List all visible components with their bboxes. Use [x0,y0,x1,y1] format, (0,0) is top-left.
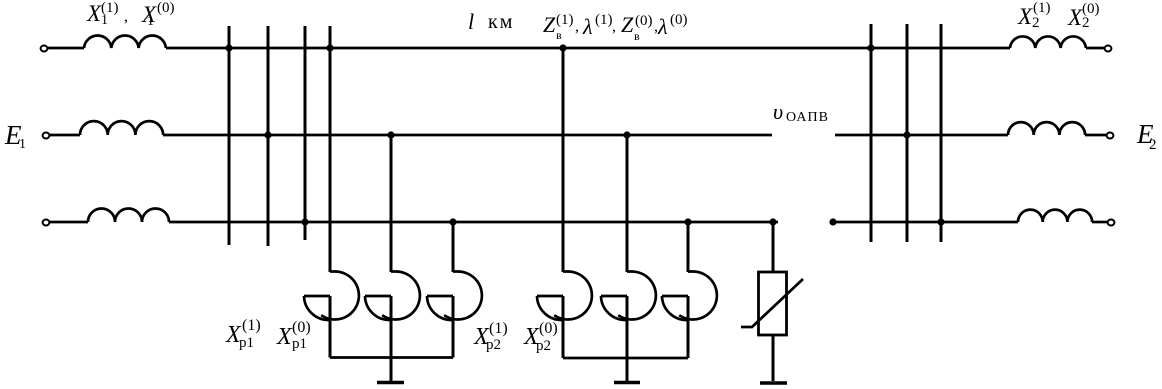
node phase A bus1 [225,44,232,51]
Xp2 reactor phase B core chord [601,295,627,298]
wire phase B to second reactor tap [391,134,627,137]
Xp2 reactor phase C core chord [662,295,688,298]
varistor body rectangle [759,272,787,335]
wire phase B X2 to E2 terminal [1085,134,1107,137]
inductor X1 phase C [88,209,169,223]
terminal circle E2 phase A [1105,46,1112,52]
wire phase C X2 to E2 terminal [1092,221,1108,224]
terminal circle E1 phase C [43,220,50,226]
wire phase A X1 to bus1 [166,47,229,50]
node phase C Xp1 tap [449,218,456,225]
wire phase C bus2 to X2 [941,221,1018,224]
Xp1 reactor phase B winding arc [382,272,420,320]
label X2(1) X2(0) [0,0,1162,1]
node phase A Xp2 tap [559,44,566,51]
terminal circle E1 phase A [41,46,48,52]
label v OAPV [0,0,1162,1]
wire lead down to Xp2 reactor phase C [687,220,690,272]
Xp1 reactor phase C lower cup arc [427,296,452,320]
wire lead down to Xp1 reactor phase A [329,26,332,272]
ground of varistor [760,381,787,384]
node phase B Xp1 tap [387,131,394,138]
Xp2 reactor phase A core chord [537,295,563,298]
Xp1 reactor phase A winding arc [321,272,359,320]
terminal circle E1 phase B [43,133,50,139]
wire phase A line section [563,47,871,50]
wire Xp1 reactor phase B bottom lead [390,296,393,381]
wire lead down to Xp2 reactor phase A [562,46,565,272]
wire phase C to second reactor tap [453,221,688,224]
left bus vertical line 2 [267,26,270,246]
inductor X2 phase C [1018,210,1092,222]
ground of Xp1 group [377,381,404,384]
wire varistor bottom lead [772,335,775,381]
inductor X2 phase B [1008,122,1085,135]
wire phase A bus2 to X2 [871,47,1010,50]
label X1(1), X1(0) [0,0,1162,1]
node phase C bus1 [301,218,308,225]
inductor X1 phase A [84,35,166,48]
wire phase B bus2 to X2 [907,134,1008,137]
varistor diagonal stroke [741,279,803,327]
Xp2 reactor phase A winding arc [554,272,592,320]
wire Xp1 reactor phase C bottom lead [452,296,455,358]
label Xp1(1) [0,0,1162,1]
label E1 [0,0,1162,1]
wire lead down to Xp1 reactor phase C [452,222,455,272]
wire neutral connector of Xp2 group [563,357,688,360]
Xp1 reactor phase B lower cup arc [365,296,390,320]
label Zv(1), lambda(1), Zv(0), lambda(0) [0,0,1162,1]
wire phase A bus1 to node Xp1 tap [229,47,330,50]
right bus vertical line 3 [940,24,943,242]
wire phase C stub at break [773,221,778,224]
label Xp2(1) [0,0,1162,1]
wire phase B after OAPV break [835,134,907,137]
wire Xp2 reactor phase C bottom lead [687,296,690,358]
wire phase B bus1 to reactor tap [268,134,391,137]
wire Xp2 reactor phase B bottom lead [626,296,629,381]
Xp1 reactor phase C core chord [427,295,453,298]
wire phase B to OAPV break [627,134,772,137]
node phase A bus2 [867,44,874,51]
node phase C Xp2 tap [684,218,691,225]
wire phase A from E1 terminal to X1 [48,47,85,50]
node phase C varistor tap [769,218,776,225]
wire phase C from E1 terminal [50,221,89,224]
wire phase B from E1 terminal [50,134,81,137]
wire lead down to Xp2 reactor phase B [626,133,629,272]
Xp2 reactor phase C lower cup arc [662,296,687,320]
Xp1 reactor phase C winding arc [444,272,482,320]
node phase B Xp2 tap [623,131,630,138]
wire lead down to Xp1 reactor phase B [390,135,393,272]
Xp1 reactor phase A core chord [304,295,330,298]
wire phase C X1 to bus1 [169,221,305,224]
node phase C break end [829,218,836,225]
wire lead down to varistor [772,222,775,272]
left bus vertical line 1 [228,26,231,245]
label Xp1(0) [0,0,1162,1]
wire Xp2 reactor phase A bottom lead [562,296,565,358]
Xp2 reactor phase C winding arc [679,272,717,320]
wire phase C to varistor tap [688,221,773,224]
node phase A Xp1 tap [326,44,333,51]
wire neutral connector of Xp1 group [330,356,453,359]
wire phase B X1 to bus1 [163,134,268,137]
label l km [0,0,1162,1]
wire phase A to node Xp2 tap [330,47,563,50]
terminal circle E2 phase B [1107,133,1114,139]
node phase B bus2 [903,131,910,138]
inductor X2 phase A [1010,36,1086,48]
node phase C bus2 [937,218,944,225]
Xp1 reactor phase A lower cup arc [304,296,329,320]
label Xp2(0) [0,0,1162,1]
wire phase C bus1 to reactor tap [305,221,453,224]
inductor X1 phase B [80,121,163,135]
wire phase C after break [833,221,941,224]
label E2 [0,0,1162,1]
wire Xp1 reactor phase A bottom lead [329,296,332,358]
right bus vertical line 2 [906,24,909,242]
ground of Xp2 group [614,381,640,384]
Xp2 reactor phase A lower cup arc [537,296,562,320]
terminal circle E2 phase C [1108,220,1115,226]
Xp2 reactor phase B winding arc [618,272,656,320]
wire phase A X2 to E2 terminal [1086,47,1105,50]
right bus vertical line 1 [870,24,873,242]
Xp1 reactor phase B core chord [365,295,391,298]
node phase B bus1 [264,131,271,138]
Xp2 reactor phase B lower cup arc [601,296,626,320]
left bus vertical line 3 [304,26,307,240]
